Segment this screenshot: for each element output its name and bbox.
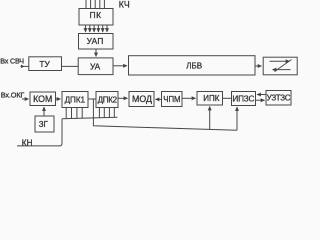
svg-text:УЗТЗС: УЗТЗС — [267, 94, 291, 103]
block IPZS — [232, 92, 256, 106]
wire IPK to IPZS — [223, 97, 232, 99]
wire arrow input OKG to KOM — [22, 98, 29, 100]
block IPK — [197, 92, 223, 106]
svg-text:ЗГ: ЗГ — [39, 120, 49, 129]
wire arrow ChPM to IPK — [182, 97, 196, 99]
wire arrow UZTZS to IPZS — [257, 94, 266, 96]
wire ticks DPK1 to bus — [66, 108, 82, 119]
wire bus up from PK to KCh — [86, 0, 104, 9]
block PK — [79, 9, 113, 26]
wire arrow input SVCh to TU — [21, 65, 29, 67]
svg-text:ЧПМ: ЧПМ — [163, 95, 180, 104]
wire DPK1 to DPK2 — [88, 98, 96, 100]
block TU — [29, 57, 62, 71]
svg-text:ТУ: ТУ — [39, 59, 50, 69]
block UZTZS — [266, 91, 291, 106]
block LBV — [129, 56, 256, 75]
block DPK1 — [62, 92, 88, 108]
wire arrow ZG to KOM — [43, 107, 45, 116]
wire arrow UAP to UA — [95, 49, 97, 56]
svg-text:КОМ: КОМ — [33, 94, 52, 104]
wire ticks DPK2 to bus — [99, 108, 114, 118]
block ZG — [35, 116, 54, 132]
block output ferrite device — [263, 57, 297, 75]
symbol arrows inside output device — [270, 60, 292, 72]
svg-text:МОД: МОД — [132, 94, 152, 104]
svg-text:ИПК: ИПК — [203, 94, 220, 103]
svg-text:ДПК2: ДПК2 — [98, 96, 118, 105]
svg-text:КН: КН — [22, 138, 33, 147]
wire KN line to bus left drop — [17, 119, 62, 146]
svg-text:ПК: ПК — [89, 10, 101, 20]
block ChPM — [162, 92, 183, 107]
svg-text:КЧ: КЧ — [119, 0, 130, 10]
wire TU to UA — [62, 65, 79, 67]
block MOD — [129, 92, 154, 107]
svg-text:Вх СВЧ: Вх СВЧ — [0, 57, 24, 66]
svg-text:УАП: УАП — [87, 36, 104, 46]
svg-text:ИПЗС: ИПЗС — [232, 94, 254, 103]
wire riser arrow to IPK — [209, 107, 211, 130]
wire arrow KOM to DPK1 — [56, 98, 61, 100]
block DPK2 — [96, 92, 118, 108]
svg-text:Вх.ОКГ: Вх.ОКГ — [1, 90, 25, 99]
wire arrows PK to UAP — [86, 25, 108, 32]
wire riser arrow to IPZS — [236, 107, 238, 130]
block UA — [78, 58, 113, 75]
wire arrow UA to LBV — [113, 65, 127, 67]
wire arrow IPZS to UZTZS — [256, 99, 265, 101]
svg-text:ЛБВ: ЛБВ — [186, 61, 202, 70]
wire T-drop from DPK connector down right to risers — [93, 99, 237, 130]
svg-text:ДПК1: ДПК1 — [65, 96, 86, 105]
svg-text:УА: УА — [90, 61, 101, 71]
block UAP — [79, 34, 114, 50]
wire arrow DPK2 to MOD — [118, 97, 128, 99]
block KOM — [30, 92, 56, 106]
wire bus bar under DPK1 DPK2 — [62, 117, 118, 119]
wire arrow LBV to output device — [255, 65, 262, 67]
wire arrow ChPM to MOD — [156, 98, 162, 100]
